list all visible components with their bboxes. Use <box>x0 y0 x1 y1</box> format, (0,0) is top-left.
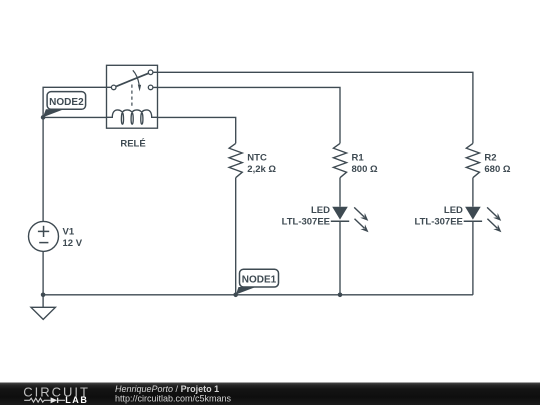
wire coil-left horizontal to NODE2 junction <box>43 116 106 118</box>
svg-text:LED: LED <box>311 205 330 216</box>
resistor R2 <box>466 143 511 177</box>
svg-text:800 Ω: 800 Ω <box>352 164 378 175</box>
footer credits <box>115 384 232 404</box>
LED D2 LTL-307EE <box>415 205 502 232</box>
svg-text:680 Ω: 680 Ω <box>484 164 510 175</box>
wire NTC branch top <box>158 117 236 143</box>
wire NTC bottom <box>235 178 237 295</box>
relay RELÉ <box>107 65 158 149</box>
wire left vertical from top corner down to V1 top <box>43 87 111 221</box>
wire R2 to LED <box>472 178 474 207</box>
junction ground dot <box>41 293 46 298</box>
svg-text:LTL-307EE: LTL-307EE <box>415 217 463 228</box>
wire LED2 bottom <box>472 221 474 295</box>
svg-text:R1: R1 <box>352 152 365 163</box>
junction node1 dot <box>233 293 238 298</box>
svg-text:R2: R2 <box>484 152 496 163</box>
svg-text:http://circuitlab.com/c5kmans: http://circuitlab.com/c5kmans <box>115 393 232 403</box>
svg-text:LED: LED <box>444 205 463 216</box>
wire LED1 bottom <box>339 221 341 295</box>
node NODE2 <box>43 92 86 118</box>
svg-text:RELÉ: RELÉ <box>120 138 145 149</box>
LED D1 LTL-307EE <box>282 205 369 232</box>
voltage source V1 <box>29 221 83 251</box>
wire R2 branch top <box>153 72 473 143</box>
svg-text:HenriquePorto / Projeto 1: HenriquePorto / Projeto 1 <box>115 384 219 394</box>
junction R1 bottom dot <box>338 293 343 298</box>
svg-text:12 V: 12 V <box>63 238 83 249</box>
footer bar <box>0 383 540 405</box>
svg-text:V1: V1 <box>63 227 75 238</box>
resistor NTC 2,2k <box>229 143 276 177</box>
wire R1 branch top <box>153 87 340 143</box>
wire R1 to LED <box>339 178 341 207</box>
wire bottom bus <box>43 294 473 296</box>
node NODE1 <box>236 269 279 294</box>
svg-text:NTC: NTC <box>247 152 267 163</box>
svg-text:LAB: LAB <box>65 395 88 405</box>
svg-text:2,2k Ω: 2,2k Ω <box>247 164 276 175</box>
ground <box>31 295 55 320</box>
wire V1 bottom to ground junction <box>42 251 44 294</box>
svg-text:NODE1: NODE1 <box>242 275 277 286</box>
svg-text:NODE2: NODE2 <box>49 97 84 108</box>
resistor R1 <box>333 143 378 177</box>
CircuitLab logo <box>23 384 90 405</box>
junction node2 dot <box>41 115 46 120</box>
svg-text:LTL-307EE: LTL-307EE <box>282 217 330 228</box>
